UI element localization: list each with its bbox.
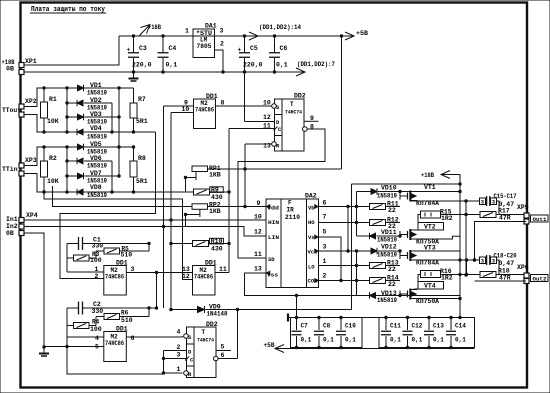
wire 0V from XP4 down to ground bbox=[24, 233, 44, 347]
svg-text:XP3: XP3 bbox=[25, 157, 37, 164]
wire Vs column bbox=[319, 237, 342, 281]
svg-text:4: 4 bbox=[95, 335, 99, 342]
resistor R17 47R bbox=[466, 214, 480, 216]
svg-text:2110: 2110 bbox=[285, 214, 300, 221]
wire vertical x112 VD6-VD8 bbox=[111, 161, 113, 192]
svg-text:5: 5 bbox=[221, 344, 225, 351]
wire Vss return loop bbox=[245, 273, 461, 296]
svg-text:КП750А: КП750А bbox=[416, 298, 439, 305]
svg-text:0,1: 0,1 bbox=[301, 337, 312, 344]
wire clock vertical from gate2 output bbox=[228, 129, 230, 273]
svg-text:0,1: 0,1 bbox=[412, 337, 423, 344]
svg-text:R6: R6 bbox=[121, 310, 129, 317]
svg-text:74HC74: 74HC74 bbox=[197, 337, 215, 344]
svg-text:430: 430 bbox=[211, 246, 223, 253]
wire +5B drop to RP1 node bbox=[341, 36, 343, 169]
net arrow (DD1,DD2):7 on 0V rail bbox=[296, 68, 305, 76]
svg-text:74HC86: 74HC86 bbox=[195, 107, 214, 114]
svg-text:LIN: LIN bbox=[268, 234, 279, 241]
wire R10 right end bbox=[209, 243, 230, 245]
wire Vb-Vcc link bbox=[347, 207, 349, 252]
svg-text:10: 10 bbox=[254, 214, 262, 221]
svg-text:12: 12 bbox=[263, 114, 271, 121]
svg-text:13: 13 bbox=[182, 266, 190, 273]
wire +18V top rail bbox=[119, 35, 342, 37]
wire XP3 lower rail to R9 bbox=[24, 174, 194, 193]
svg-text:Out1: Out1 bbox=[533, 216, 548, 223]
wire R9 right to clock vertical bbox=[210, 191, 230, 193]
wire gate out8 to DD2 S bbox=[216, 105, 273, 107]
capacitor C12 0,1 bbox=[407, 318, 409, 331]
svg-text:XP2: XP2 bbox=[25, 98, 37, 105]
capacitor C8 0,1 bbox=[318, 318, 320, 331]
wire gate pin10 stub bbox=[171, 112, 194, 114]
wire vertical x112 VD2-VD4 bbox=[111, 103, 113, 132]
svg-text:3: 3 bbox=[323, 244, 327, 251]
wire 0V rail bbox=[24, 71, 305, 73]
wire VT3 drain row bbox=[413, 250, 460, 252]
wire VD10-VD11 tie column bbox=[356, 192, 358, 237]
svg-text:+5В: +5В bbox=[356, 30, 368, 37]
svg-text:22: 22 bbox=[388, 207, 396, 214]
wire RP2 to Vdd pin9 bbox=[208, 206, 267, 208]
wire XP2 upper to rail bbox=[24, 88, 134, 107]
svg-text:1N5819: 1N5819 bbox=[377, 237, 397, 244]
svg-text:2: 2 bbox=[323, 273, 327, 280]
svg-text:1N5819: 1N5819 bbox=[377, 193, 397, 200]
wire VD9 to DD2 pin6 bbox=[237, 310, 239, 359]
svg-text:2: 2 bbox=[220, 41, 224, 48]
wire gate1 out to gate2 pin13 bbox=[126, 272, 192, 274]
resistor R12 22 bbox=[319, 222, 370, 224]
svg-text:R2: R2 bbox=[49, 155, 57, 162]
wire gate pin9 stub bbox=[164, 105, 194, 107]
svg-text:R17: R17 bbox=[498, 208, 510, 215]
svg-text:1N4148: 1N4148 bbox=[207, 311, 228, 318]
svg-text:1N5819: 1N5819 bbox=[87, 90, 107, 97]
svg-text:8: 8 bbox=[221, 100, 225, 107]
svg-text:1N5819: 1N5819 bbox=[377, 297, 397, 304]
ground symbol bottom left bbox=[42, 345, 45, 348]
svg-text:0,1: 0,1 bbox=[166, 62, 178, 69]
svg-text:SD: SD bbox=[268, 256, 275, 263]
svg-text:(DD1,DD2):7: (DD1,DD2):7 bbox=[297, 61, 335, 68]
svg-text:VD1: VD1 bbox=[90, 82, 102, 89]
svg-text:C5: C5 bbox=[250, 45, 258, 52]
wire +18V from XP1 up to rail bbox=[24, 36, 119, 65]
capacitor C2 330 bbox=[67, 307, 78, 309]
svg-text:1N5819: 1N5819 bbox=[377, 252, 397, 259]
wire vertical x119 VD1-VD3 down bbox=[118, 88, 120, 176]
svg-text:100: 100 bbox=[90, 326, 102, 333]
cap bank box 2 bbox=[379, 318, 475, 348]
svg-text:+: + bbox=[238, 47, 242, 54]
resistor R18 47R bbox=[460, 274, 480, 276]
resistor R15 1R2 bbox=[421, 211, 441, 218]
wire RP1 node to +5B drop bbox=[208, 168, 342, 170]
wire XP2 lower rail bbox=[24, 115, 156, 133]
wire VT2 label loop bbox=[418, 223, 444, 231]
svg-text:C8: C8 bbox=[323, 323, 331, 330]
svg-text:TTout: TTout bbox=[2, 107, 21, 114]
svg-text:T: T bbox=[202, 329, 206, 336]
svg-text:6: 6 bbox=[131, 335, 135, 342]
svg-text:1N5819: 1N5819 bbox=[87, 134, 107, 141]
svg-text:0,1: 0,1 bbox=[390, 337, 401, 344]
svg-text:1КВ: 1КВ bbox=[209, 172, 221, 179]
wire +18B rail right block bbox=[352, 183, 461, 185]
wire gate1out tap to C2 block bbox=[156, 273, 158, 309]
wire vertical x67 XP3 bbox=[66, 147, 68, 192]
svg-text:1: 1 bbox=[185, 28, 189, 35]
wire VT1 source to output node bbox=[411, 200, 467, 202]
wire XP3 upper to rail bbox=[24, 147, 134, 166]
svg-text:5R1: 5R1 bbox=[136, 178, 148, 185]
net +5B arrow at right of rail bbox=[340, 34, 343, 37]
wire C18 tie column bbox=[466, 260, 468, 275]
svg-text:VD8: VD8 bbox=[90, 184, 102, 191]
svg-text:Out2: Out2 bbox=[533, 276, 548, 283]
wire VD12-VD13 tie column bbox=[356, 251, 358, 296]
wire R3 node to gate1 pin1 bbox=[66, 258, 68, 272]
svg-text:C11: C11 bbox=[390, 323, 401, 330]
svg-text:XP4: XP4 bbox=[26, 212, 38, 219]
capacitor C13 0,1 bbox=[428, 318, 430, 331]
wire VT3 source to out2 node bbox=[413, 259, 460, 261]
svg-text:47R: 47R bbox=[499, 215, 511, 222]
wire +5V rail from DA1 pin3 bbox=[215, 35, 342, 37]
resistor R14 22 bbox=[319, 280, 370, 282]
svg-text:0,1: 0,1 bbox=[276, 62, 288, 69]
wire gate3 out6 to DD2.2 set bbox=[126, 336, 182, 338]
svg-text:+: + bbox=[127, 47, 131, 54]
svg-text:C4: C4 bbox=[169, 45, 177, 52]
svg-text:R4: R4 bbox=[92, 319, 100, 326]
capacitor C10 0,1 bbox=[340, 318, 342, 331]
wire output column x466 bbox=[465, 201, 467, 275]
wire +18B column to mosfet rail bbox=[351, 184, 353, 310]
svg-text:IR: IR bbox=[287, 207, 295, 214]
svg-text:1N5819: 1N5819 bbox=[87, 192, 107, 199]
svg-text:R1: R1 bbox=[49, 96, 57, 103]
svg-text:C14: C14 bbox=[455, 323, 466, 330]
wire bus TTin-low from rail to gate2 pin12 bbox=[42, 190, 45, 193]
wire D from +5V column bbox=[244, 72, 246, 122]
svg-text:1: 1 bbox=[323, 258, 327, 265]
net +18B arrow near C3 bbox=[139, 25, 150, 37]
svg-text:HO: HO bbox=[308, 219, 315, 226]
svg-text:6: 6 bbox=[221, 352, 225, 359]
svg-text:1R2: 1R2 bbox=[441, 215, 453, 222]
svg-text:74HC74: 74HC74 bbox=[285, 109, 303, 116]
svg-text:0В: 0В bbox=[6, 66, 14, 73]
svg-text:100: 100 bbox=[90, 257, 102, 264]
cap bank box 1 bbox=[291, 318, 363, 348]
svg-text:R18: R18 bbox=[498, 268, 510, 275]
svg-text:2: 2 bbox=[95, 273, 99, 280]
wire vertical RP1-Vdd link bbox=[244, 169, 246, 207]
svg-text:C12: C12 bbox=[412, 323, 423, 330]
svg-text:(DD1,DD2):14: (DD1,DD2):14 bbox=[259, 24, 301, 31]
capacitor C11 0,1 bbox=[385, 318, 387, 331]
svg-text:DA1: DA1 bbox=[205, 23, 217, 30]
svg-text:2: 2 bbox=[177, 344, 181, 351]
svg-text:R8: R8 bbox=[138, 155, 146, 162]
transistor VT4 KP750A bbox=[407, 291, 409, 298]
wire VT4 drain from loop bbox=[414, 288, 419, 290]
resistor R10 430 with framed label bbox=[171, 243, 193, 245]
svg-text:220,0: 220,0 bbox=[243, 62, 263, 69]
wire VT4 source link bbox=[413, 298, 460, 300]
svg-text:In1: In1 bbox=[6, 216, 18, 223]
svg-text:0,1: 0,1 bbox=[455, 337, 466, 344]
svg-text:VT4: VT4 bbox=[424, 283, 436, 290]
svg-text:430: 430 bbox=[211, 194, 223, 201]
svg-text:12: 12 bbox=[254, 229, 262, 236]
svg-text:5: 5 bbox=[323, 229, 327, 236]
resistor R3 100 bbox=[67, 244, 74, 259]
wire vertical x67 between rails bbox=[66, 88, 68, 132]
resistor R5 510 bbox=[96, 250, 104, 252]
svg-text:74HC86: 74HC86 bbox=[105, 274, 124, 281]
svg-text:7: 7 bbox=[323, 214, 327, 221]
svg-text:330: 330 bbox=[92, 243, 104, 250]
wire gate-top pin10 from In1 node bbox=[170, 113, 172, 310]
svg-text:47R: 47R bbox=[499, 275, 511, 282]
svg-text:11: 11 bbox=[254, 251, 262, 258]
svg-text:330: 330 bbox=[92, 308, 104, 315]
svg-text:510: 510 bbox=[121, 252, 133, 259]
wire In1 row to HIN bbox=[24, 219, 266, 221]
svg-text:3: 3 bbox=[131, 266, 135, 273]
svg-text:КП784А: КП784А bbox=[416, 260, 439, 267]
wire cap bank top rail with tick bbox=[287, 314, 289, 322]
svg-text:22: 22 bbox=[388, 266, 396, 273]
svg-text:220,0: 220,0 bbox=[132, 62, 152, 69]
capacitor C4 0,1 bbox=[162, 36, 164, 52]
svg-text:C10: C10 bbox=[345, 323, 356, 330]
svg-text:C3: C3 bbox=[139, 45, 147, 52]
capacitor C5 220,0 electrolytic bbox=[239, 52, 250, 54]
svg-text:VD10: VD10 bbox=[381, 185, 397, 192]
wire VT2 drain from loop bbox=[414, 229, 419, 231]
svg-text:DD2: DD2 bbox=[294, 93, 306, 100]
svg-text:10: 10 bbox=[182, 106, 190, 113]
wire out2 column junctions bbox=[458, 273, 461, 276]
svg-text:VT1: VT1 bbox=[424, 184, 436, 191]
svg-text:C7: C7 bbox=[301, 323, 309, 330]
wire VT2 source link jog bbox=[413, 236, 460, 239]
svg-text:1R2: 1R2 bbox=[441, 275, 453, 282]
svg-text:F: F bbox=[288, 200, 292, 207]
capacitor C14 0,1 bbox=[450, 318, 452, 331]
resistor R6 510 bbox=[96, 316, 104, 318]
svg-text:VT2: VT2 bbox=[424, 224, 436, 231]
svg-text:VD12: VD12 bbox=[381, 244, 397, 251]
resistor R16 1R2 bbox=[421, 271, 441, 278]
wire R16 left to VT4 loop bbox=[418, 275, 421, 282]
svg-text:VD5: VD5 bbox=[90, 141, 102, 148]
capacitor C7 0,1 bbox=[296, 318, 298, 331]
wire COM drop to cap rail bbox=[296, 296, 298, 318]
svg-text:10К: 10К bbox=[47, 118, 59, 125]
wire bus TTin-high to RP2 bbox=[53, 186, 193, 207]
svg-text:0В: 0В bbox=[6, 230, 14, 237]
svg-text:3: 3 bbox=[177, 352, 181, 359]
wire In2 row bbox=[24, 227, 266, 237]
svg-text:11: 11 bbox=[219, 266, 227, 273]
wire gate3 pin4 from R4 node bbox=[67, 336, 104, 338]
svg-text:74HC86: 74HC86 bbox=[105, 340, 124, 347]
svg-text:HIN: HIN bbox=[268, 219, 279, 226]
svg-text:In2: In2 bbox=[6, 223, 18, 230]
svg-text:+18В: +18В bbox=[421, 172, 434, 179]
svg-text:C13: C13 bbox=[433, 323, 444, 330]
capacitor C6 0,1 bbox=[274, 36, 276, 52]
svg-text:Vs: Vs bbox=[308, 234, 315, 241]
svg-text:VT3: VT3 bbox=[424, 245, 436, 252]
svg-text:7805: 7805 bbox=[197, 43, 212, 50]
resistor R11 22 bbox=[319, 206, 370, 208]
capacitor C3 220,0 electrolytic bbox=[133, 36, 135, 52]
svg-text:5R1: 5R1 bbox=[136, 118, 148, 125]
svg-text:LO: LO bbox=[308, 264, 315, 271]
wire left vertical to bottom rail bbox=[66, 308, 68, 374]
svg-text:3: 3 bbox=[220, 28, 224, 35]
wire bottom rail bbox=[67, 347, 164, 375]
wire R15 left to VT2 loop bbox=[418, 215, 421, 223]
wire bus TTout-low to gate1 pin2 bbox=[60, 132, 156, 279]
svg-text:10: 10 bbox=[263, 100, 271, 107]
svg-text:+5В: +5В bbox=[264, 342, 275, 349]
resistor R9 430 with framed label bbox=[194, 189, 210, 195]
svg-text:0,47: 0,47 bbox=[499, 260, 515, 267]
wire gate-top pin9 from In2 node bbox=[163, 106, 165, 308]
svg-text:1: 1 bbox=[95, 266, 99, 273]
svg-text:XP1: XP1 bbox=[25, 58, 37, 65]
svg-text:1N5819: 1N5819 bbox=[87, 163, 107, 170]
wire VT1 drain and output column bbox=[459, 184, 461, 318]
resistor R13 22 bbox=[319, 265, 370, 267]
resistor R4 100 bbox=[67, 325, 74, 327]
ground symbol under C3 bbox=[133, 72, 135, 78]
svg-text:TTin: TTin bbox=[2, 166, 18, 173]
svg-text:0,1: 0,1 bbox=[323, 337, 334, 344]
svg-text:XP6: XP6 bbox=[517, 264, 529, 271]
svg-text:C2: C2 bbox=[93, 301, 101, 308]
svg-text:74HC86: 74HC86 bbox=[194, 274, 213, 281]
svg-text:12: 12 bbox=[182, 273, 190, 280]
svg-text:VD4: VD4 bbox=[90, 125, 102, 132]
svg-text:DA2: DA2 bbox=[305, 193, 317, 200]
wire XP5 pin2 loop bbox=[475, 222, 527, 261]
svg-text:1: 1 bbox=[177, 366, 181, 373]
svg-text:T: T bbox=[290, 101, 294, 108]
svg-text:C6: C6 bbox=[280, 45, 288, 52]
net arrow (DD1,DD2):14 bbox=[249, 32, 258, 40]
svg-text:6: 6 bbox=[323, 200, 327, 207]
wire ground rail to gate3 pin5 bbox=[44, 346, 104, 348]
svg-text:0,1: 0,1 bbox=[345, 337, 356, 344]
capacitor C1 330 bbox=[67, 243, 78, 245]
svg-text:VD11: VD11 bbox=[381, 229, 397, 236]
svg-text:R7: R7 bbox=[138, 96, 146, 103]
svg-text:13: 13 bbox=[254, 266, 262, 273]
svg-text:Vb: Vb bbox=[308, 205, 315, 212]
wire VT4 label loop bbox=[418, 282, 444, 290]
wire DD2.2 DCR common to bottom rail bbox=[163, 351, 165, 374]
wire R6 tie to C2 row bbox=[148, 308, 150, 317]
svg-text:510: 510 bbox=[121, 317, 133, 324]
svg-text:9: 9 bbox=[257, 200, 261, 207]
svg-text:+18В: +18В bbox=[148, 24, 161, 31]
svg-text:22: 22 bbox=[388, 281, 396, 288]
svg-text:XP5: XP5 bbox=[517, 204, 529, 211]
svg-text:10К: 10К bbox=[47, 178, 59, 185]
svg-text:1КВ: 1КВ bbox=[209, 208, 221, 215]
wire gate2 output to clock column bbox=[215, 272, 229, 274]
svg-text:4: 4 bbox=[177, 329, 181, 336]
svg-text:0,1: 0,1 bbox=[433, 337, 444, 344]
transistor VT2 KP750A bbox=[407, 231, 409, 238]
